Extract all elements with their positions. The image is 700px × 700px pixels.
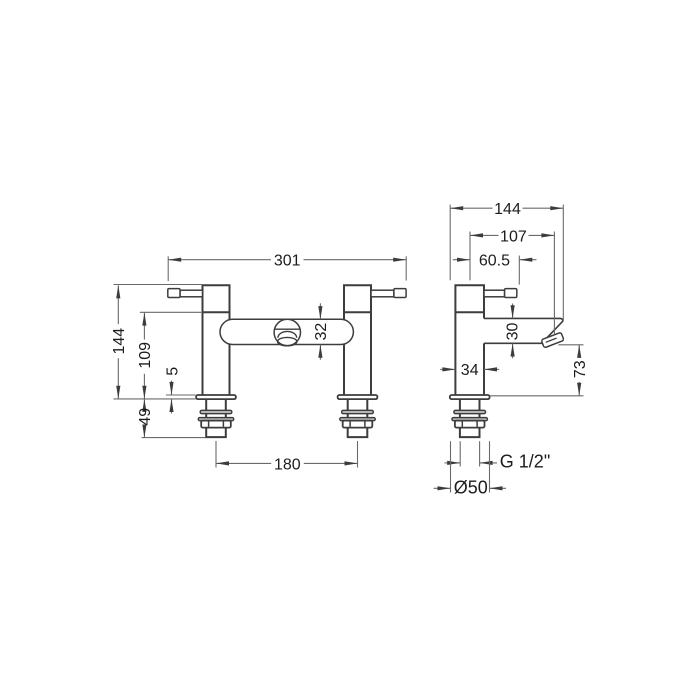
dimension diameter 50: value label [454,478,488,498]
front view: centre spout boss circle [274,319,300,345]
svg-text:30: 30 [504,323,521,341]
front view: right pillar joint line [344,311,371,313]
front view: left pillar upper washer [200,410,232,413]
dimension diameter 50: arrows outside [434,486,506,490]
side view: pillar joint line [455,311,484,313]
side view: shank between base plate and washers [460,399,480,418]
dimension diameter 50: extension lines [451,441,490,492]
label G 1/2: text [500,452,550,472]
dimension 109: value label [137,342,154,369]
front view: right pillar shank between base plate and washers [348,399,368,418]
side view: handle lever [484,290,505,297]
side view: pillar body [455,285,484,395]
dimension 144 (front): dimension line with arrows [116,285,120,398]
svg-text:60.5: 60.5 [479,253,510,270]
dimension 109: extension line [140,311,203,313]
dimension 32: value label [313,323,330,341]
dimension 107: value label [500,228,527,245]
front view: left pillar deck base plate [196,395,236,399]
dimension 32: arrows outside [318,303,322,359]
side view: aerator tip [541,332,564,348]
dimension 5: extension line [166,394,196,396]
svg-text:34: 34 [461,362,479,379]
dimension 109: dimension line with arrows [142,313,146,399]
front view: right pillar body [344,285,371,395]
dimension 49: extension line [142,437,206,439]
dimension 107: dimension line with arrows [470,233,554,237]
dimension 60.5: value label [479,253,510,270]
front view: left pillar lower washer [198,418,233,421]
front view: left handle knob [168,289,180,298]
svg-text:73: 73 [572,360,589,378]
side view: threaded tail [460,428,480,438]
svg-text:5: 5 [165,367,182,376]
label G 1/2: extension lines from tail [460,441,479,466]
side view: upper washer [454,410,486,413]
side view: handle knob [505,289,517,298]
dimension 144 (front): extension lines [114,285,203,399]
side view: backnut [455,421,485,428]
svg-text:32: 32 [313,323,330,341]
dimension 73: value label [572,360,589,378]
front view: right handle lever [371,290,394,297]
dimension 144 (side): value label [494,201,521,218]
front view: boss bottom ellipse [278,337,297,345]
dimension 5: arrows outside [169,381,173,414]
front view: left pillar joint line [203,311,230,313]
svg-text:49: 49 [137,408,154,426]
label G 1/2: arrows outside [445,461,498,465]
dimension 180: extension lines [216,441,358,468]
svg-text:180: 180 [274,456,301,473]
front view: left pillar body [203,285,230,395]
dimension 60.5: arrows outside [453,258,537,262]
front view: right pillar upper washer [342,410,374,413]
dimension 5: value label [165,367,182,376]
dimension 49: dimension line with arrows [142,399,146,438]
front view: boss dome arc [278,331,297,337]
front view: left handle lever [180,290,203,297]
svg-text:107: 107 [500,228,527,245]
dimension 107: extension lines [470,232,554,335]
dimension 180: dimension line with arrows [216,461,358,465]
front view: horizontal body bar [220,319,353,344]
front view: left pillar backnut [201,421,231,428]
front view: left pillar shank between base plate and washers [206,399,226,418]
front view: right pillar threaded tail [348,428,368,438]
dimension 73: extension lines [490,345,584,396]
dimension 49: value label [137,408,154,426]
front view: left pillar threaded tail [206,428,226,438]
side view: lower washer [452,418,487,421]
front view: right pillar lower washer [340,418,375,421]
dimension 34: value label [461,362,479,379]
svg-text:144: 144 [111,328,128,355]
svg-text:144: 144 [494,201,521,218]
side view: deck base plate [450,395,490,399]
dimension 60.5: extension line [518,256,520,285]
side view: spout tube [484,318,563,343]
dimension 144 (front): value label [111,328,128,355]
dimension 144 (side): dimension line with arrows [450,206,563,210]
front view: right handle knob [394,289,406,298]
dimension 144 (side): extension lines [450,205,563,321]
front view: boss chord line [275,328,301,330]
svg-text:109: 109 [137,342,154,369]
svg-text:G 1/2": G 1/2" [500,452,550,472]
dimension 180: value label [274,456,301,473]
front view: right pillar deck base plate [338,395,378,399]
svg-text:301: 301 [274,253,301,270]
dimension 30: value label [504,323,521,341]
dimension 301: extension lines [168,256,406,281]
dimension 73: dimension line with arrows [577,345,581,396]
dimension 30: arrows outside [511,304,515,359]
dimension 301: dimension line with arrows [168,258,406,262]
dimension 34: arrows outside [440,367,499,371]
front view: right pillar backnut [343,421,373,428]
svg-text:Ø50: Ø50 [454,478,488,498]
dimension 301: value label [274,253,301,270]
